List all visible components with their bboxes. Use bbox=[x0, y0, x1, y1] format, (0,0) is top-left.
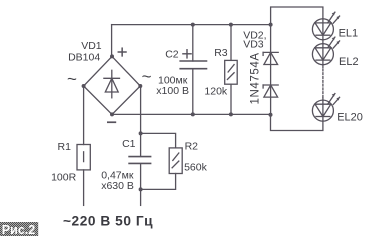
zener diode VD2 bbox=[263, 52, 278, 64]
label plus sign at bridge output bbox=[118, 48, 126, 56]
resistor R1 body bbox=[77, 145, 90, 170]
wire R2 branch top bbox=[141, 133, 176, 148]
svg-text:~: ~ bbox=[142, 67, 152, 86]
node bridge minus vertex bbox=[110, 112, 114, 116]
svg-text:VD1: VD1 bbox=[81, 40, 102, 52]
zener diode VD3 bbox=[263, 85, 278, 97]
node top bus / zener column bbox=[269, 23, 273, 27]
figure caption box Ris.2 bbox=[0, 222, 38, 237]
wire R3 top lead bbox=[230, 25, 232, 61]
svg-text:560k: 560k bbox=[184, 161, 208, 173]
wire stub to EL20 bbox=[322, 98, 324, 101]
svg-text:EL20: EL20 bbox=[337, 111, 363, 123]
bridge rectifier VD1 diamond bbox=[84, 56, 141, 114]
svg-text:EL1: EL1 bbox=[339, 28, 359, 40]
svg-text:х100 В: х100 В bbox=[156, 85, 189, 97]
svg-text:100R: 100R bbox=[51, 171, 77, 183]
node bridge left AC vertex bbox=[82, 84, 86, 88]
node top bus / C2 bbox=[191, 23, 195, 27]
wire LED chain bottom return bbox=[271, 115, 323, 131]
svg-text:~: ~ bbox=[67, 70, 77, 89]
wire EL1 to EL2 bbox=[322, 40, 324, 44]
bridge internal diode symbol bbox=[104, 70, 120, 98]
svg-text:х630 В: х630 В bbox=[101, 180, 134, 192]
svg-text:~220 В 50 Гц: ~220 В 50 Гц bbox=[63, 213, 153, 228]
svg-text:120k: 120k bbox=[204, 86, 228, 98]
svg-text:R1: R1 bbox=[58, 141, 72, 153]
wire left AC column with R1 bbox=[83, 86, 85, 145]
wire R2 branch bottom bbox=[141, 174, 176, 190]
label plus sign at C2 bbox=[183, 50, 191, 58]
resistor R3 body bbox=[225, 60, 238, 84]
node C1 / R2 top junction bbox=[139, 131, 143, 135]
svg-text:DB104: DB104 bbox=[68, 52, 100, 64]
svg-text:VD3: VD3 bbox=[243, 39, 264, 51]
node bottom bus / R3 bbox=[229, 112, 233, 116]
svg-text:C1: C1 bbox=[122, 138, 136, 150]
node bottom bus / C2 bbox=[191, 112, 195, 116]
svg-text:1N4754A: 1N4754A bbox=[250, 52, 262, 104]
svg-text:R3: R3 bbox=[214, 47, 228, 59]
wire bridge plus riser bbox=[111, 25, 113, 57]
capacitor C2 plates bbox=[180, 61, 206, 69]
node C1 / R2 bottom junction bbox=[139, 187, 143, 191]
wire C1 to AC terminal bbox=[140, 164, 142, 206]
wire R1 to AC terminal bbox=[83, 170, 85, 206]
node bridge plus vertex bbox=[110, 54, 114, 58]
resistor R2 body bbox=[169, 148, 182, 174]
svg-text:R2: R2 bbox=[185, 140, 199, 152]
node bridge right AC vertex bbox=[138, 84, 142, 88]
wire R3 bottom lead bbox=[230, 84, 232, 114]
label minus sign at bridge output bbox=[107, 121, 116, 123]
LED EL20 bbox=[312, 94, 339, 122]
svg-text:Рис.2: Рис.2 bbox=[2, 223, 35, 236]
LED EL2 bbox=[312, 37, 339, 65]
wire top bus from bridge plus to VD2 column bbox=[112, 24, 271, 26]
svg-text:C2: C2 bbox=[165, 49, 179, 61]
wire C2 bottom lead bbox=[192, 69, 194, 115]
wire zener column bbox=[270, 25, 272, 115]
svg-text:EL2: EL2 bbox=[339, 56, 359, 68]
node top bus / R3 bbox=[229, 23, 233, 27]
wire right AC column from bridge to C1 bbox=[140, 86, 142, 156]
node bottom bus / zener column bbox=[269, 113, 273, 117]
wire riser to LED chain top bbox=[271, 7, 323, 25]
wire dotted continuation of LED chain bbox=[322, 69, 324, 97]
wire bottom bus from bridge minus to VD3 column bbox=[112, 113, 271, 115]
capacitor C1 plates bbox=[129, 157, 151, 164]
wire EL2 down stub bbox=[322, 65, 324, 68]
wire C2 top lead bbox=[192, 25, 194, 61]
LED EL1 bbox=[312, 12, 339, 40]
